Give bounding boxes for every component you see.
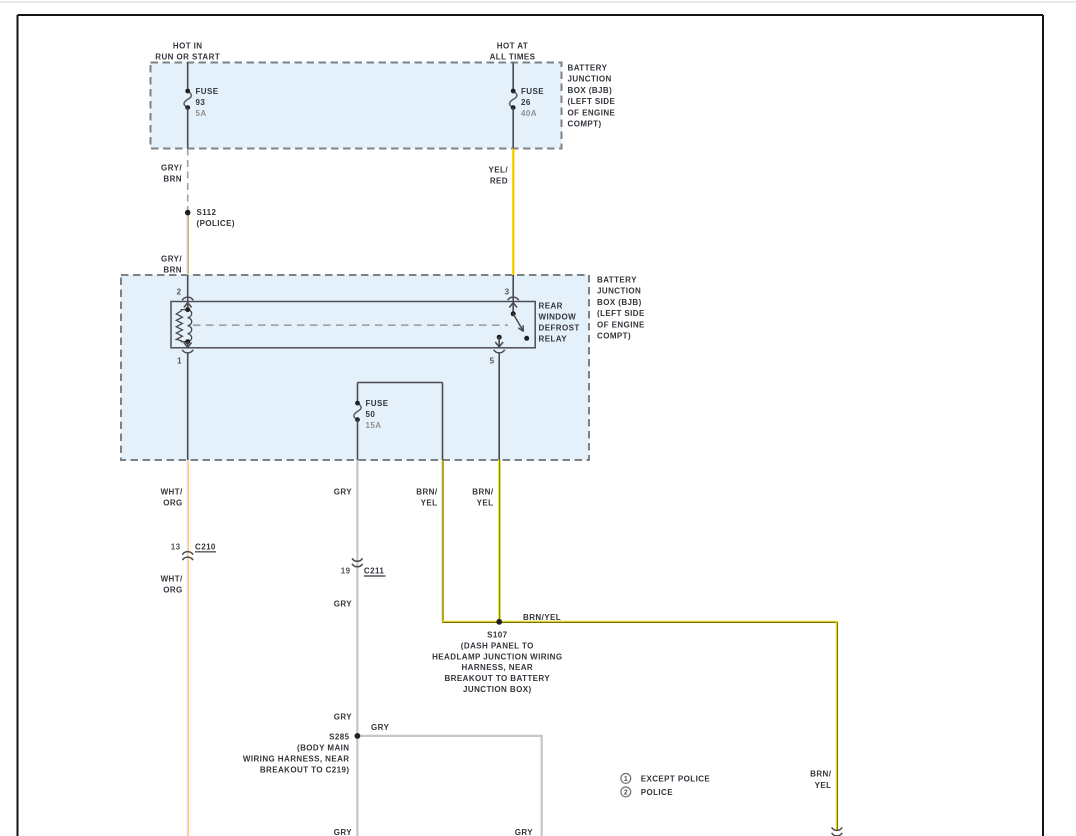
svg-text:GRY: GRY (334, 488, 353, 497)
svg-text:(POLICE): (POLICE) (197, 219, 235, 228)
svg-text:YEL: YEL (477, 499, 494, 508)
svg-text:YEL: YEL (421, 499, 438, 508)
svg-text:GRY/: GRY/ (161, 164, 182, 173)
svg-text:BRN/: BRN/ (472, 488, 494, 497)
svg-text:ALL TIMES: ALL TIMES (490, 53, 536, 62)
svg-text:BRN/YEL: BRN/YEL (523, 613, 561, 622)
svg-text:YEL: YEL (815, 781, 832, 790)
svg-text:1: 1 (177, 356, 182, 365)
svg-text:C211: C211 (364, 567, 384, 576)
svg-text:GRY: GRY (515, 828, 534, 836)
svg-text:S107: S107 (487, 631, 507, 640)
svg-text:5A: 5A (196, 109, 207, 118)
svg-text:1: 1 (624, 776, 628, 783)
svg-text:3: 3 (505, 287, 510, 296)
svg-text:ORG: ORG (163, 499, 182, 508)
svg-text:15A: 15A (366, 421, 382, 430)
svg-text:ORG: ORG (163, 586, 182, 595)
svg-text:40A: 40A (521, 109, 537, 118)
svg-text:COMPT): COMPT) (568, 120, 602, 129)
svg-text:(LEFT SIDE: (LEFT SIDE (568, 97, 616, 106)
svg-text:WHT/: WHT/ (161, 575, 183, 584)
svg-text:HOT AT: HOT AT (497, 42, 528, 51)
svg-text:BRN/: BRN/ (810, 769, 832, 778)
svg-text:RELAY: RELAY (539, 335, 568, 344)
svg-text:FUSE: FUSE (196, 87, 219, 96)
svg-text:JUNCTION: JUNCTION (597, 287, 641, 296)
svg-text:5: 5 (490, 356, 495, 365)
svg-text:WIRING HARNESS, NEAR: WIRING HARNESS, NEAR (243, 755, 350, 764)
svg-text:(DASH PANEL TO: (DASH PANEL TO (461, 641, 534, 650)
svg-text:GRY/: GRY/ (161, 255, 182, 264)
svg-text:BATTERY: BATTERY (597, 276, 637, 285)
svg-text:COMPT): COMPT) (597, 332, 631, 341)
svg-text:BRN/: BRN/ (416, 488, 438, 497)
svg-text:RUN OR START: RUN OR START (155, 53, 220, 62)
svg-text:13: 13 (171, 542, 181, 551)
svg-text:POLICE: POLICE (641, 788, 674, 797)
svg-text:BRN: BRN (163, 175, 182, 184)
svg-text:FUSE: FUSE (366, 399, 389, 408)
svg-text:HEADLAMP JUNCTION WIRING: HEADLAMP JUNCTION WIRING (432, 652, 562, 661)
svg-text:REAR: REAR (539, 302, 563, 311)
svg-text:HOT IN: HOT IN (173, 42, 203, 51)
svg-text:GRY: GRY (334, 713, 353, 722)
svg-text:BREAKOUT TO C219): BREAKOUT TO C219) (260, 766, 350, 775)
svg-text:BOX (BJB): BOX (BJB) (568, 86, 613, 95)
svg-text:WHT/: WHT/ (161, 488, 183, 497)
svg-text:(BODY MAIN: (BODY MAIN (297, 744, 350, 753)
svg-text:26: 26 (521, 98, 531, 107)
svg-text:WINDOW: WINDOW (539, 313, 577, 322)
svg-text:(LEFT SIDE: (LEFT SIDE (597, 309, 645, 318)
svg-text:HARNESS, NEAR: HARNESS, NEAR (461, 663, 533, 672)
svg-text:C210: C210 (195, 542, 216, 551)
svg-text:BOX (BJB): BOX (BJB) (597, 298, 642, 307)
svg-text:OF ENGINE: OF ENGINE (568, 108, 616, 117)
svg-text:GRY: GRY (371, 723, 390, 732)
svg-text:DEFROST: DEFROST (539, 324, 580, 333)
svg-text:S285: S285 (329, 733, 349, 742)
svg-text:BRN: BRN (163, 266, 182, 275)
svg-text:19: 19 (341, 567, 351, 576)
svg-text:YEL/: YEL/ (489, 165, 509, 174)
svg-text:EXCEPT POLICE: EXCEPT POLICE (641, 774, 711, 783)
svg-text:93: 93 (196, 98, 206, 107)
svg-text:BREAKOUT TO BATTERY: BREAKOUT TO BATTERY (444, 674, 550, 683)
svg-text:50: 50 (366, 410, 376, 419)
svg-text:2: 2 (624, 790, 628, 797)
svg-text:JUNCTION: JUNCTION (568, 75, 612, 84)
svg-text:JUNCTION BOX): JUNCTION BOX) (463, 685, 532, 694)
svg-text:FUSE: FUSE (521, 87, 544, 96)
svg-text:GRY: GRY (334, 600, 353, 609)
svg-text:S112: S112 (197, 208, 217, 217)
svg-text:OF ENGINE: OF ENGINE (597, 320, 645, 329)
svg-text:2: 2 (177, 287, 182, 296)
svg-text:GRY: GRY (334, 828, 353, 836)
svg-text:BATTERY: BATTERY (568, 63, 608, 72)
svg-text:RED: RED (490, 176, 508, 185)
